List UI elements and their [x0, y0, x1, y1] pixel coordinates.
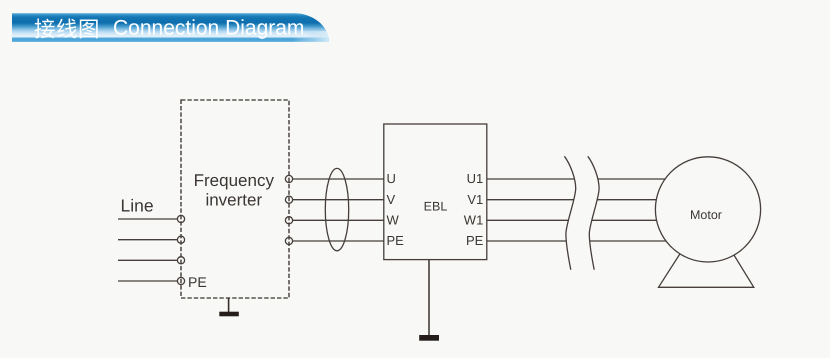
ground (inverter): [219, 298, 239, 316]
svg-text:Line: Line: [121, 196, 154, 216]
svg-text:PE: PE: [387, 233, 405, 248]
ground (EBL): [419, 260, 439, 341]
svg-text:U1: U1: [467, 171, 484, 186]
wire PE input: [118, 280, 177, 282]
banner tip fade: [293, 31, 333, 42]
svg-text:V1: V1: [467, 192, 483, 207]
terminal node PE in: [177, 277, 184, 284]
wire U1 (EBL to motor): [487, 178, 680, 180]
terminal node W out: [285, 217, 292, 224]
svg-text:EBL: EBL: [424, 200, 448, 214]
svg-text:Motor: Motor: [690, 208, 722, 222]
motor M1 body: [655, 157, 760, 262]
frequency inverter U1 dashed enclosure: [181, 100, 289, 298]
svg-text:PE: PE: [466, 233, 484, 248]
svg-text:W: W: [387, 213, 400, 228]
svg-text:inverter: inverter: [205, 191, 262, 210]
cable bundle ellipse: [325, 168, 348, 250]
terminal node U out: [285, 175, 292, 182]
svg-text:Connection Diagram: Connection Diagram: [113, 17, 304, 40]
svg-text:U: U: [387, 171, 396, 186]
cable break curve right: [588, 156, 599, 269]
wire U (inverter to EBL): [293, 178, 384, 180]
wire L3: [118, 259, 177, 261]
title CJK text 接线图: [35, 18, 98, 38]
wire V (inverter to EBL): [293, 199, 384, 201]
wire L2: [118, 239, 177, 241]
svg-text:V: V: [387, 192, 396, 207]
svg-text:Frequency: Frequency: [194, 171, 275, 190]
wire W1 (EBL to motor): [487, 219, 680, 221]
cable break gap mask: [564, 156, 599, 269]
wire PE (inverter to EBL): [293, 240, 384, 242]
svg-text:PE: PE: [188, 274, 207, 290]
title banner: [12, 13, 329, 42]
terminal node PE out: [285, 237, 292, 244]
terminal node L1: [177, 215, 184, 222]
EBL module box: [384, 124, 487, 260]
terminal node L2: [177, 236, 184, 243]
wire V1 (EBL to motor): [487, 199, 680, 201]
motor base pedestal: [659, 245, 754, 287]
svg-text:W1: W1: [464, 213, 484, 228]
terminal node L3: [177, 257, 184, 264]
cable break curve left: [564, 156, 575, 269]
terminal node V out: [285, 196, 292, 203]
wire PE (EBL to motor): [487, 240, 680, 242]
wire L1 (Line input top): [118, 218, 177, 220]
wire W (inverter to EBL): [293, 219, 384, 221]
